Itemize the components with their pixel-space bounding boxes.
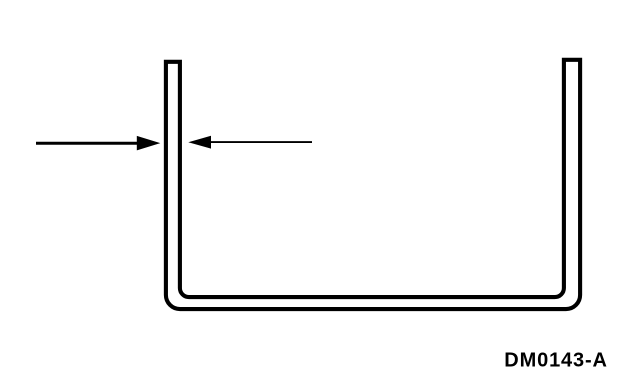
svg-text:DM0143-A: DM0143-A [504, 350, 608, 372]
right dimension arrow (points left at inner wall surface) [188, 136, 312, 149]
left dimension arrow (points right at outer wall surface) [36, 136, 160, 151]
vessel wall outline (U-shaped channel cross-section) [166, 60, 580, 309]
